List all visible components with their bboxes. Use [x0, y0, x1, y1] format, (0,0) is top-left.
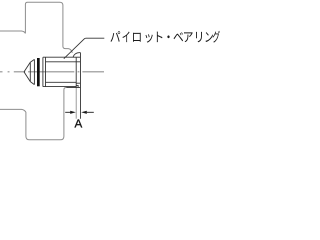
- dimension line left: [65, 111, 70, 113]
- label pilot bearing (katakana paths): [111, 31, 220, 43]
- housing lower-left outline: [0, 88, 66, 140]
- crank bore line: [66, 87, 80, 89]
- seal ring (solid): [37, 58, 40, 86]
- arrow left: [70, 111, 76, 114]
- recess top edge: [76, 56, 80, 58]
- centerline: [0, 71, 104, 73]
- dimension line right: [87, 111, 94, 113]
- label A: [75, 119, 83, 127]
- housing upper-left outline: [0, 2, 72, 53]
- recess step: [76, 85, 78, 87]
- nose step: [30, 59, 34, 84]
- crank flange face / extension line: [79, 53, 81, 119]
- crank flange fillet: [73, 53, 81, 58]
- shaft nose cone: [24, 62, 30, 81]
- extension line left: [75, 88, 77, 119]
- leader line: [64, 38, 105, 59]
- bearing left face lines: [43, 57, 46, 86]
- arrow right: [81, 111, 87, 114]
- bearing outer edges: [43, 57, 76, 86]
- bearing inner lines: [46, 62, 81, 83]
- bearing right face: [75, 57, 77, 87]
